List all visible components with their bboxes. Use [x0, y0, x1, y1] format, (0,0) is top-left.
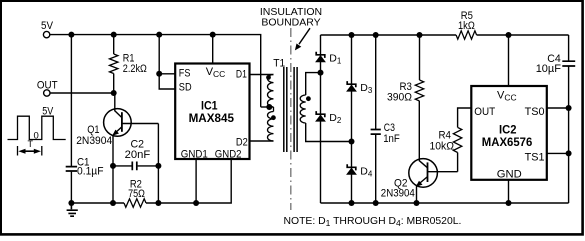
wire C3 lower: [375, 135, 377, 204]
svg-text:FS: FS: [179, 67, 191, 79]
wire IC1 VCC: [212, 35, 214, 64]
svg-text:TS1: TS1: [525, 151, 545, 163]
junction dot gnd: [68, 200, 74, 206]
junction dot Q1 emitter rail: [110, 200, 116, 206]
junction dot C3 top: [373, 32, 379, 38]
diode D1: [316, 52, 325, 58]
junction dot (OUT/R1/Q1): [111, 90, 117, 96]
node OUT terminal: [44, 90, 50, 96]
resistor R2: [124, 199, 146, 207]
wire secondary top tap: [306, 73, 321, 95]
resistor R5: [456, 31, 477, 39]
waveform arrowhead right: [34, 149, 41, 154]
wire secondary bottom tap: [306, 123, 352, 142]
Q2 collector diagonal: [419, 161, 427, 168]
svg-text:20nF: 20nF: [125, 149, 151, 161]
wire IC2 VCC: [508, 35, 510, 86]
wire C1 upper: [70, 35, 72, 167]
svg-text:D1: D1: [236, 69, 247, 81]
junction dot Q2 emitter rail: [414, 200, 420, 206]
wire right column lower: [568, 66, 570, 203]
Q2 base bar: [427, 162, 429, 182]
svg-text:5V: 5V: [41, 20, 54, 32]
T1 primary polarity dot bottom: [271, 115, 276, 120]
wire 5V top rail: [50, 35, 261, 107]
wire IC1 D2 pin: [250, 140, 274, 142]
Q2 emitter arrowhead: [416, 181, 423, 187]
junction dot center tap: [266, 104, 272, 110]
wire bottom rail left: [71, 202, 124, 204]
Q1 emitter wire: [112, 135, 114, 203]
wire IC1 D1 pin: [250, 74, 274, 76]
Q1 collector diagonal: [115, 111, 122, 118]
resistor R1: [110, 54, 118, 74]
svg-text:GND: GND: [497, 169, 522, 181]
wire FS stub: [159, 73, 175, 75]
wire FS-SD column: [159, 35, 175, 89]
waveform arrowhead left: [18, 149, 25, 154]
junction dot FS: [156, 71, 162, 77]
capacitor C1: [66, 167, 77, 171]
wire R1 bottom: [113, 74, 115, 94]
wire IC2 TS0: [547, 107, 569, 109]
wire IC2 GND: [508, 180, 510, 203]
insulation arrowhead: [295, 44, 301, 51]
svg-text:OUT: OUT: [474, 106, 495, 118]
svg-text:SD: SD: [179, 82, 192, 94]
wire T1 center tap: [261, 106, 274, 108]
wire bottom rail secondary: [321, 202, 569, 204]
svg-text:GND2: GND2: [215, 148, 242, 160]
wire IC2 TS1: [547, 152, 569, 154]
svg-text:5V: 5V: [42, 105, 54, 117]
wire R3 bottom (Q2 collector): [418, 101, 420, 161]
diode D4: [347, 164, 356, 170]
svg-text:2N3904: 2N3904: [381, 188, 415, 200]
Q2 emitter wire: [416, 186, 418, 203]
transformer T1 secondary winding: [300, 95, 306, 123]
diode D3: [347, 81, 356, 87]
svg-text:GND1: GND1: [181, 148, 208, 160]
junction dot TS0: [566, 105, 572, 111]
junction dot secondary bottom: [349, 139, 355, 145]
IC IC1 MAX845 box: [175, 64, 249, 160]
svg-text:10µF: 10µF: [536, 63, 562, 75]
junction dot GND1 rail: [193, 200, 199, 206]
svg-text:MAX845: MAX845: [189, 111, 235, 125]
Q2 base lead: [428, 171, 458, 173]
wire R1 top: [113, 35, 115, 54]
wire C1 lower: [70, 172, 72, 203]
junction dot R3 top: [417, 32, 423, 38]
node 5V terminal: [43, 31, 49, 37]
svg-text:10kΩ: 10kΩ: [430, 141, 455, 153]
transformer T1 primary bottom winding: [273, 107, 275, 112]
T1 secondary polarity dot: [306, 96, 311, 101]
insulation arrow line: [299, 28, 310, 44]
junction dot (C1 branch): [68, 32, 74, 38]
waveform square wave: [8, 116, 66, 139]
junction dot D4 rail: [349, 200, 355, 206]
resistor R4: [453, 127, 461, 152]
capacitor C2: [132, 162, 137, 171]
wire C3 upper: [375, 35, 377, 129]
capacitor C4: [562, 61, 575, 66]
junction dot (R1 branch): [111, 32, 117, 38]
svg-text:390Ω: 390Ω: [387, 92, 412, 104]
svg-text:TS0: TS0: [525, 106, 545, 118]
Q1 emitter arrowhead: [112, 130, 119, 136]
insulation boundary line: [290, 28, 292, 210]
junction dot D3 top: [349, 32, 355, 38]
svg-text:Q1: Q1: [87, 124, 99, 136]
T1 core lines: [284, 67, 297, 152]
ground symbol: [67, 203, 78, 216]
svg-text:MAX6576: MAX6576: [482, 135, 533, 149]
wire OUT pin to R4: [458, 108, 472, 127]
svg-text:D2: D2: [236, 136, 248, 148]
wire R3 top: [419, 35, 421, 80]
IC IC2 MAX6576 box: [471, 86, 547, 180]
junction dot TS1: [566, 150, 572, 156]
svg-text:1kΩ: 1kΩ: [458, 20, 475, 32]
wire C2 right: [138, 165, 159, 167]
waveform period arrow: [22, 150, 37, 152]
junction dot (IC1 VCC branch): [210, 32, 216, 38]
svg-text:NOTE: D1 THROUGH D4: MBR0520L.: NOTE: D1 THROUGH D4: MBR0520L.: [284, 216, 462, 228]
capacitor C3: [371, 130, 381, 135]
Q1 base bar: [121, 112, 123, 132]
wire base column: [157, 124, 159, 204]
svg-text:0.1µF: 0.1µF: [77, 166, 104, 178]
svg-text:2N3904: 2N3904: [76, 135, 112, 147]
T1 primary polarity dot top: [266, 75, 271, 80]
junction dot base-rail: [155, 200, 161, 206]
svg-text:BOUNDARY: BOUNDARY: [261, 16, 320, 28]
wire top rail secondary: [321, 34, 569, 36]
Q2 emitter diagonal: [417, 177, 428, 186]
transformer T1 primary top winding: [268, 75, 274, 107]
transistor Q2 circle: [409, 159, 438, 188]
Q1 base lead: [122, 123, 158, 125]
wire IC1 GND1: [195, 160, 197, 204]
wire R4 bottom: [457, 153, 459, 172]
resistor R3: [415, 80, 423, 101]
wire OUT to collector node: [50, 92, 114, 94]
svg-text:1nF: 1nF: [383, 133, 400, 145]
junction dot C2 right: [155, 163, 161, 169]
junction dot IC2 GND rail: [506, 200, 512, 206]
svg-text:0: 0: [34, 131, 39, 142]
Q1 collector wire: [114, 93, 116, 111]
wire rectifier line 1: [320, 35, 322, 203]
svg-text:2.2kΩ: 2.2kΩ: [123, 63, 147, 75]
junction dot IC2 VCC top: [506, 32, 512, 38]
svg-text:T: T: [28, 139, 34, 149]
junction dot C2 left: [110, 163, 116, 169]
junction dot (FS/SD branch): [156, 32, 162, 38]
Q1 emitter diagonal: [113, 127, 122, 135]
junction dot secondary top: [318, 70, 324, 76]
wire rectifier line 2: [351, 35, 353, 203]
junction dot C3 rail: [373, 200, 379, 206]
wire bottom rail mid: [146, 160, 231, 204]
wire C2 left: [113, 165, 132, 167]
wire right column upper: [568, 35, 570, 61]
transistor Q1 circle: [104, 109, 132, 137]
svg-text:OUT: OUT: [37, 79, 58, 91]
diode D2: [316, 111, 325, 117]
waveform T ticks: [18, 146, 42, 156]
